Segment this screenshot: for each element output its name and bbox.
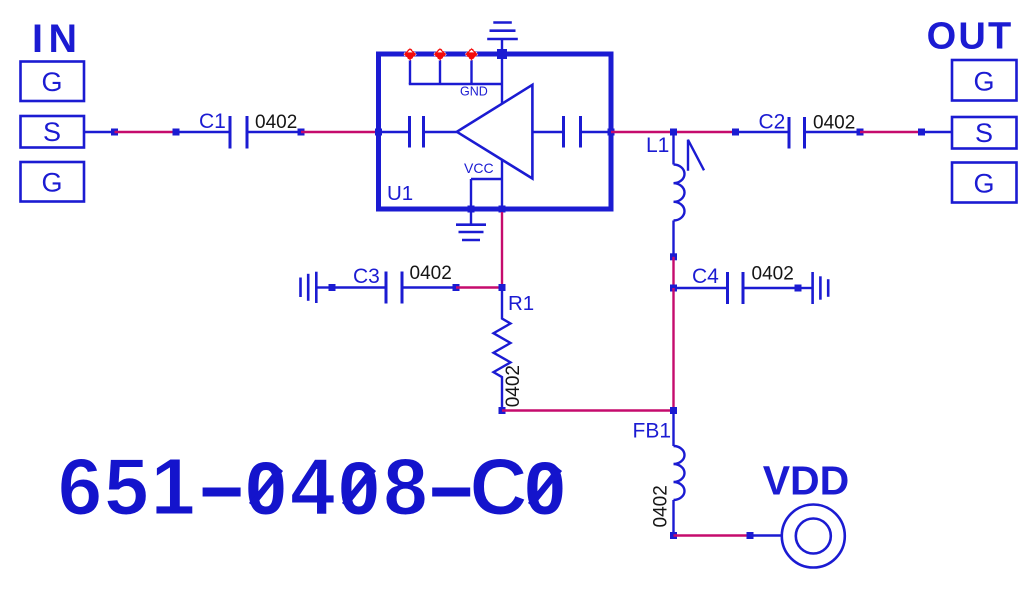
svg-text:OUT: OUT <box>927 16 1014 58</box>
node square U1 bottom gnd pin <box>468 206 475 213</box>
svg-text:S: S <box>43 117 61 147</box>
slash of zero 3 <box>531 469 560 505</box>
svg-text:G: G <box>41 67 62 97</box>
svg-text:IN: IN <box>32 17 83 61</box>
node square U1 bottom vcc pin <box>499 206 506 213</box>
slash of zero 2 <box>345 469 374 505</box>
wire U1 out to L1 node (magenta) <box>611 131 736 133</box>
ferrite bead FB1 <box>633 411 685 536</box>
slash of zero 1 <box>252 469 281 505</box>
wire node to right ground <box>798 287 813 289</box>
inductor L1 <box>646 132 685 257</box>
node square <box>747 532 754 539</box>
capacitor C4 <box>692 265 743 304</box>
pad OUT G (top) <box>952 60 1017 101</box>
svg-text:0402: 0402 <box>410 263 452 284</box>
resistor R1 <box>494 288 535 411</box>
wire C4 to node <box>743 287 798 289</box>
node square L1 top <box>670 129 677 136</box>
svg-text:0402: 0402 <box>255 112 297 133</box>
svg-text:VCC: VCC <box>464 160 494 176</box>
op-amp U1 body <box>379 54 612 209</box>
wire node to OUT S pad <box>922 131 953 133</box>
svg-text:GND: GND <box>460 85 488 99</box>
pad IN G (bottom) <box>21 162 85 202</box>
part number 651-0408-C0 <box>58 442 527 531</box>
wire C1 to node <box>247 131 301 133</box>
svg-text:0402: 0402 <box>752 264 794 285</box>
U1 internal output capacitor <box>532 116 608 148</box>
U1 gnd pin stubs <box>409 54 502 99</box>
dash 2 of part number <box>432 488 470 497</box>
svg-text:C1: C1 <box>199 110 226 133</box>
node square <box>795 285 802 292</box>
node square <box>918 129 925 136</box>
ground (above U1, upside down) <box>487 23 518 40</box>
node square FB1 top <box>670 407 677 414</box>
svg-text:G: G <box>41 168 62 198</box>
pin marker diamond 2 <box>433 48 446 61</box>
svg-text:C4: C4 <box>692 265 719 288</box>
svg-text:C3: C3 <box>353 265 380 288</box>
wire node to U1 (magenta) <box>301 131 379 133</box>
dash 1 of part number <box>203 488 241 497</box>
U1 internal input capacitor <box>381 116 457 148</box>
svg-text:C: C <box>470 442 527 531</box>
wire net segment (magenta) <box>115 131 177 133</box>
node square R1 top <box>499 284 506 291</box>
wire C2 to node <box>805 131 861 133</box>
power symbol VDD <box>763 458 850 568</box>
pin marker diamond 3 <box>465 48 478 61</box>
wire C3 to node <box>402 286 456 288</box>
svg-text:G: G <box>973 67 994 97</box>
node square at U1 top <box>497 49 507 59</box>
svg-text:VDD: VDD <box>763 458 850 504</box>
node square FB1 bottom <box>670 532 677 539</box>
capacitor C3 <box>353 265 402 304</box>
node square <box>857 129 864 136</box>
svg-text:8: 8 <box>383 442 427 531</box>
svg-text:C2: C2 <box>759 111 786 134</box>
svg-text:U1: U1 <box>387 182 413 205</box>
svg-text:S: S <box>975 118 993 148</box>
wire FB1 to VDD node (magenta) <box>674 534 751 536</box>
node square <box>298 129 305 136</box>
svg-text:G: G <box>973 169 994 199</box>
pin marker diamond 1 <box>403 48 416 61</box>
svg-text:R1: R1 <box>508 292 534 315</box>
wire node to VDD symbol <box>750 534 782 536</box>
pad OUT S <box>952 117 1017 149</box>
svg-text:L1: L1 <box>646 134 669 157</box>
node square <box>453 284 460 291</box>
node square <box>173 129 180 136</box>
capacitor C1 <box>199 110 247 149</box>
amplifier triangle (points left) <box>457 85 533 179</box>
svg-text:1: 1 <box>151 442 195 531</box>
pad OUT G (bottom) <box>952 163 1017 203</box>
U1 vertical gnd/vcc stem <box>501 40 503 209</box>
wire R1 bottom to FB1 node (magenta) <box>502 409 674 411</box>
node square <box>670 253 677 260</box>
svg-text:4: 4 <box>290 442 334 531</box>
wire C4 node down to FB1 (magenta) <box>672 288 674 411</box>
wire U1 vcc down to R1 node (magenta) <box>501 212 503 288</box>
node square C4 row <box>670 285 677 292</box>
node square <box>111 129 118 136</box>
wire node to R1 top (magenta) <box>456 286 502 288</box>
svg-text:0402: 0402 <box>813 113 855 134</box>
svg-text:0402: 0402 <box>503 365 524 407</box>
wire node to node (magenta) <box>860 131 922 133</box>
ground (below U1) <box>456 209 486 240</box>
wire to C1 <box>176 131 230 133</box>
svg-text:6: 6 <box>58 442 102 531</box>
L1 arrow mark <box>688 140 704 171</box>
svg-text:5: 5 <box>104 442 148 531</box>
wire node to C3 <box>332 286 386 288</box>
pad IN S <box>21 116 85 148</box>
port IN label <box>32 17 83 61</box>
node square U1 right pin <box>608 129 615 136</box>
wire IN S to node <box>84 131 115 133</box>
wire L1 to C4 node (magenta) <box>672 257 674 288</box>
ground (right of C4, sideways) <box>813 272 829 304</box>
svg-text:FB1: FB1 <box>633 420 672 443</box>
svg-text:0402: 0402 <box>651 485 672 527</box>
pad IN G (top) <box>21 62 85 102</box>
node square R1 bottom <box>499 407 506 414</box>
node square U1 left pin <box>375 129 382 136</box>
ground (left of C3, sideways) <box>301 272 333 303</box>
node square <box>329 284 336 291</box>
U1 VCC pin <box>464 160 502 209</box>
capacitor C2 <box>732 111 805 149</box>
wire node to C4 <box>674 287 728 289</box>
